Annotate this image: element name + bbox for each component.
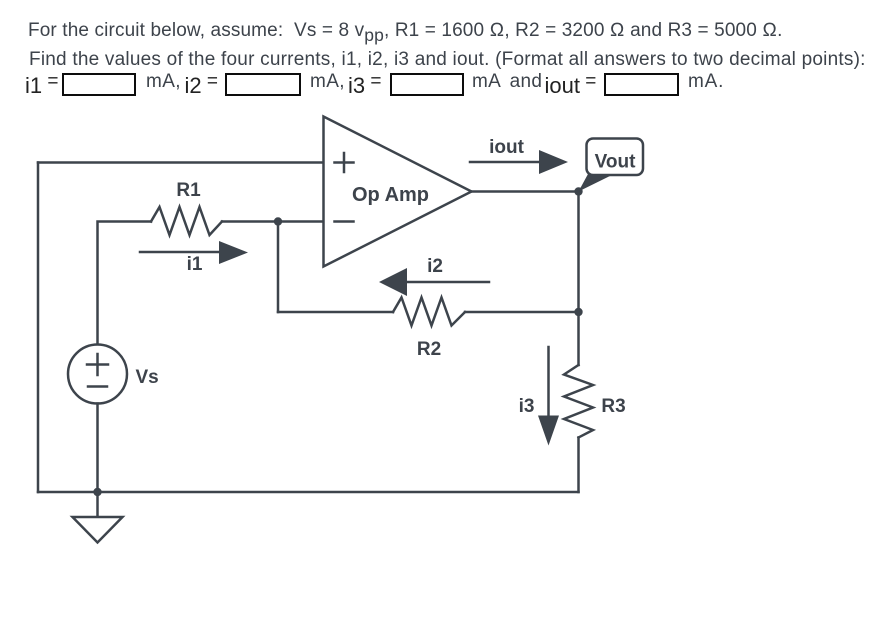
wire: feedback vertical drop	[277, 222, 280, 313]
wire: bottom rail	[38, 491, 579, 494]
op-amp + input symbol	[335, 153, 354, 172]
wire: R3 to bottom rail	[577, 438, 580, 493]
answer row: trailing mA.	[688, 71, 724, 93]
source Vs + symbol	[87, 354, 108, 375]
answer input box 4	[604, 73, 679, 96]
wire: left vertical rail	[37, 163, 40, 493]
svg-text:i3: i3	[519, 396, 535, 417]
wire: right vertical to R3	[577, 192, 580, 366]
problem statement line 1	[28, 20, 783, 42]
answer row: i1 = equation	[25, 71, 59, 93]
op-amp U1	[324, 117, 472, 267]
answer row: mA, label	[310, 71, 345, 93]
svg-text:R3: R3	[601, 396, 625, 417]
source Vs - symbol	[88, 385, 107, 388]
wire: R1 to inverting input	[222, 220, 324, 223]
answer row: mA, label	[146, 71, 181, 93]
svg-text:R1: R1	[176, 180, 201, 201]
answer row: mA and label	[472, 71, 542, 93]
answer row: i2 = equation	[185, 71, 219, 93]
node: feedback junction	[574, 308, 582, 316]
problem statement line 2	[29, 49, 866, 71]
answer input box 2	[225, 73, 301, 96]
resistor R3	[564, 365, 593, 438]
wire: op-amp output	[472, 190, 579, 193]
resistor R1	[151, 207, 222, 235]
callout tail to output node	[579, 174, 615, 192]
wire: Vs bottom to bottom rail	[96, 404, 99, 493]
answer row: i3 = equation	[348, 71, 382, 93]
wire: feedback row right	[465, 311, 579, 314]
answer input box 3	[390, 73, 464, 96]
callout Vout box	[587, 139, 644, 176]
node: output junction	[574, 187, 582, 195]
answer row: iout = equation	[545, 71, 597, 93]
svg-text:iout: iout	[489, 137, 524, 158]
answer input box 1	[62, 73, 136, 96]
svg-text:Op Amp: Op Amp	[352, 184, 429, 206]
svg-text:i2: i2	[427, 256, 443, 277]
svg-text:R2: R2	[417, 339, 441, 360]
node: ground junction	[93, 488, 101, 496]
svg-text:i1: i1	[187, 254, 203, 275]
svg-text:Vout: Vout	[595, 152, 636, 173]
resistor R2	[393, 298, 465, 326]
ground	[96, 492, 99, 517]
current arrow i2	[407, 281, 489, 284]
wire: feedback row left	[278, 311, 393, 314]
op-amp - input symbol	[335, 220, 354, 223]
current arrow iout	[470, 161, 540, 164]
current arrow i3	[547, 347, 550, 416]
wire: Vs top to R1	[98, 222, 152, 345]
svg-text:Vs: Vs	[136, 367, 159, 388]
wire: non-inverting input top rail	[38, 161, 324, 164]
current arrow i1	[140, 251, 220, 254]
source Vs	[68, 345, 127, 404]
node: inverting input junction	[274, 217, 282, 225]
